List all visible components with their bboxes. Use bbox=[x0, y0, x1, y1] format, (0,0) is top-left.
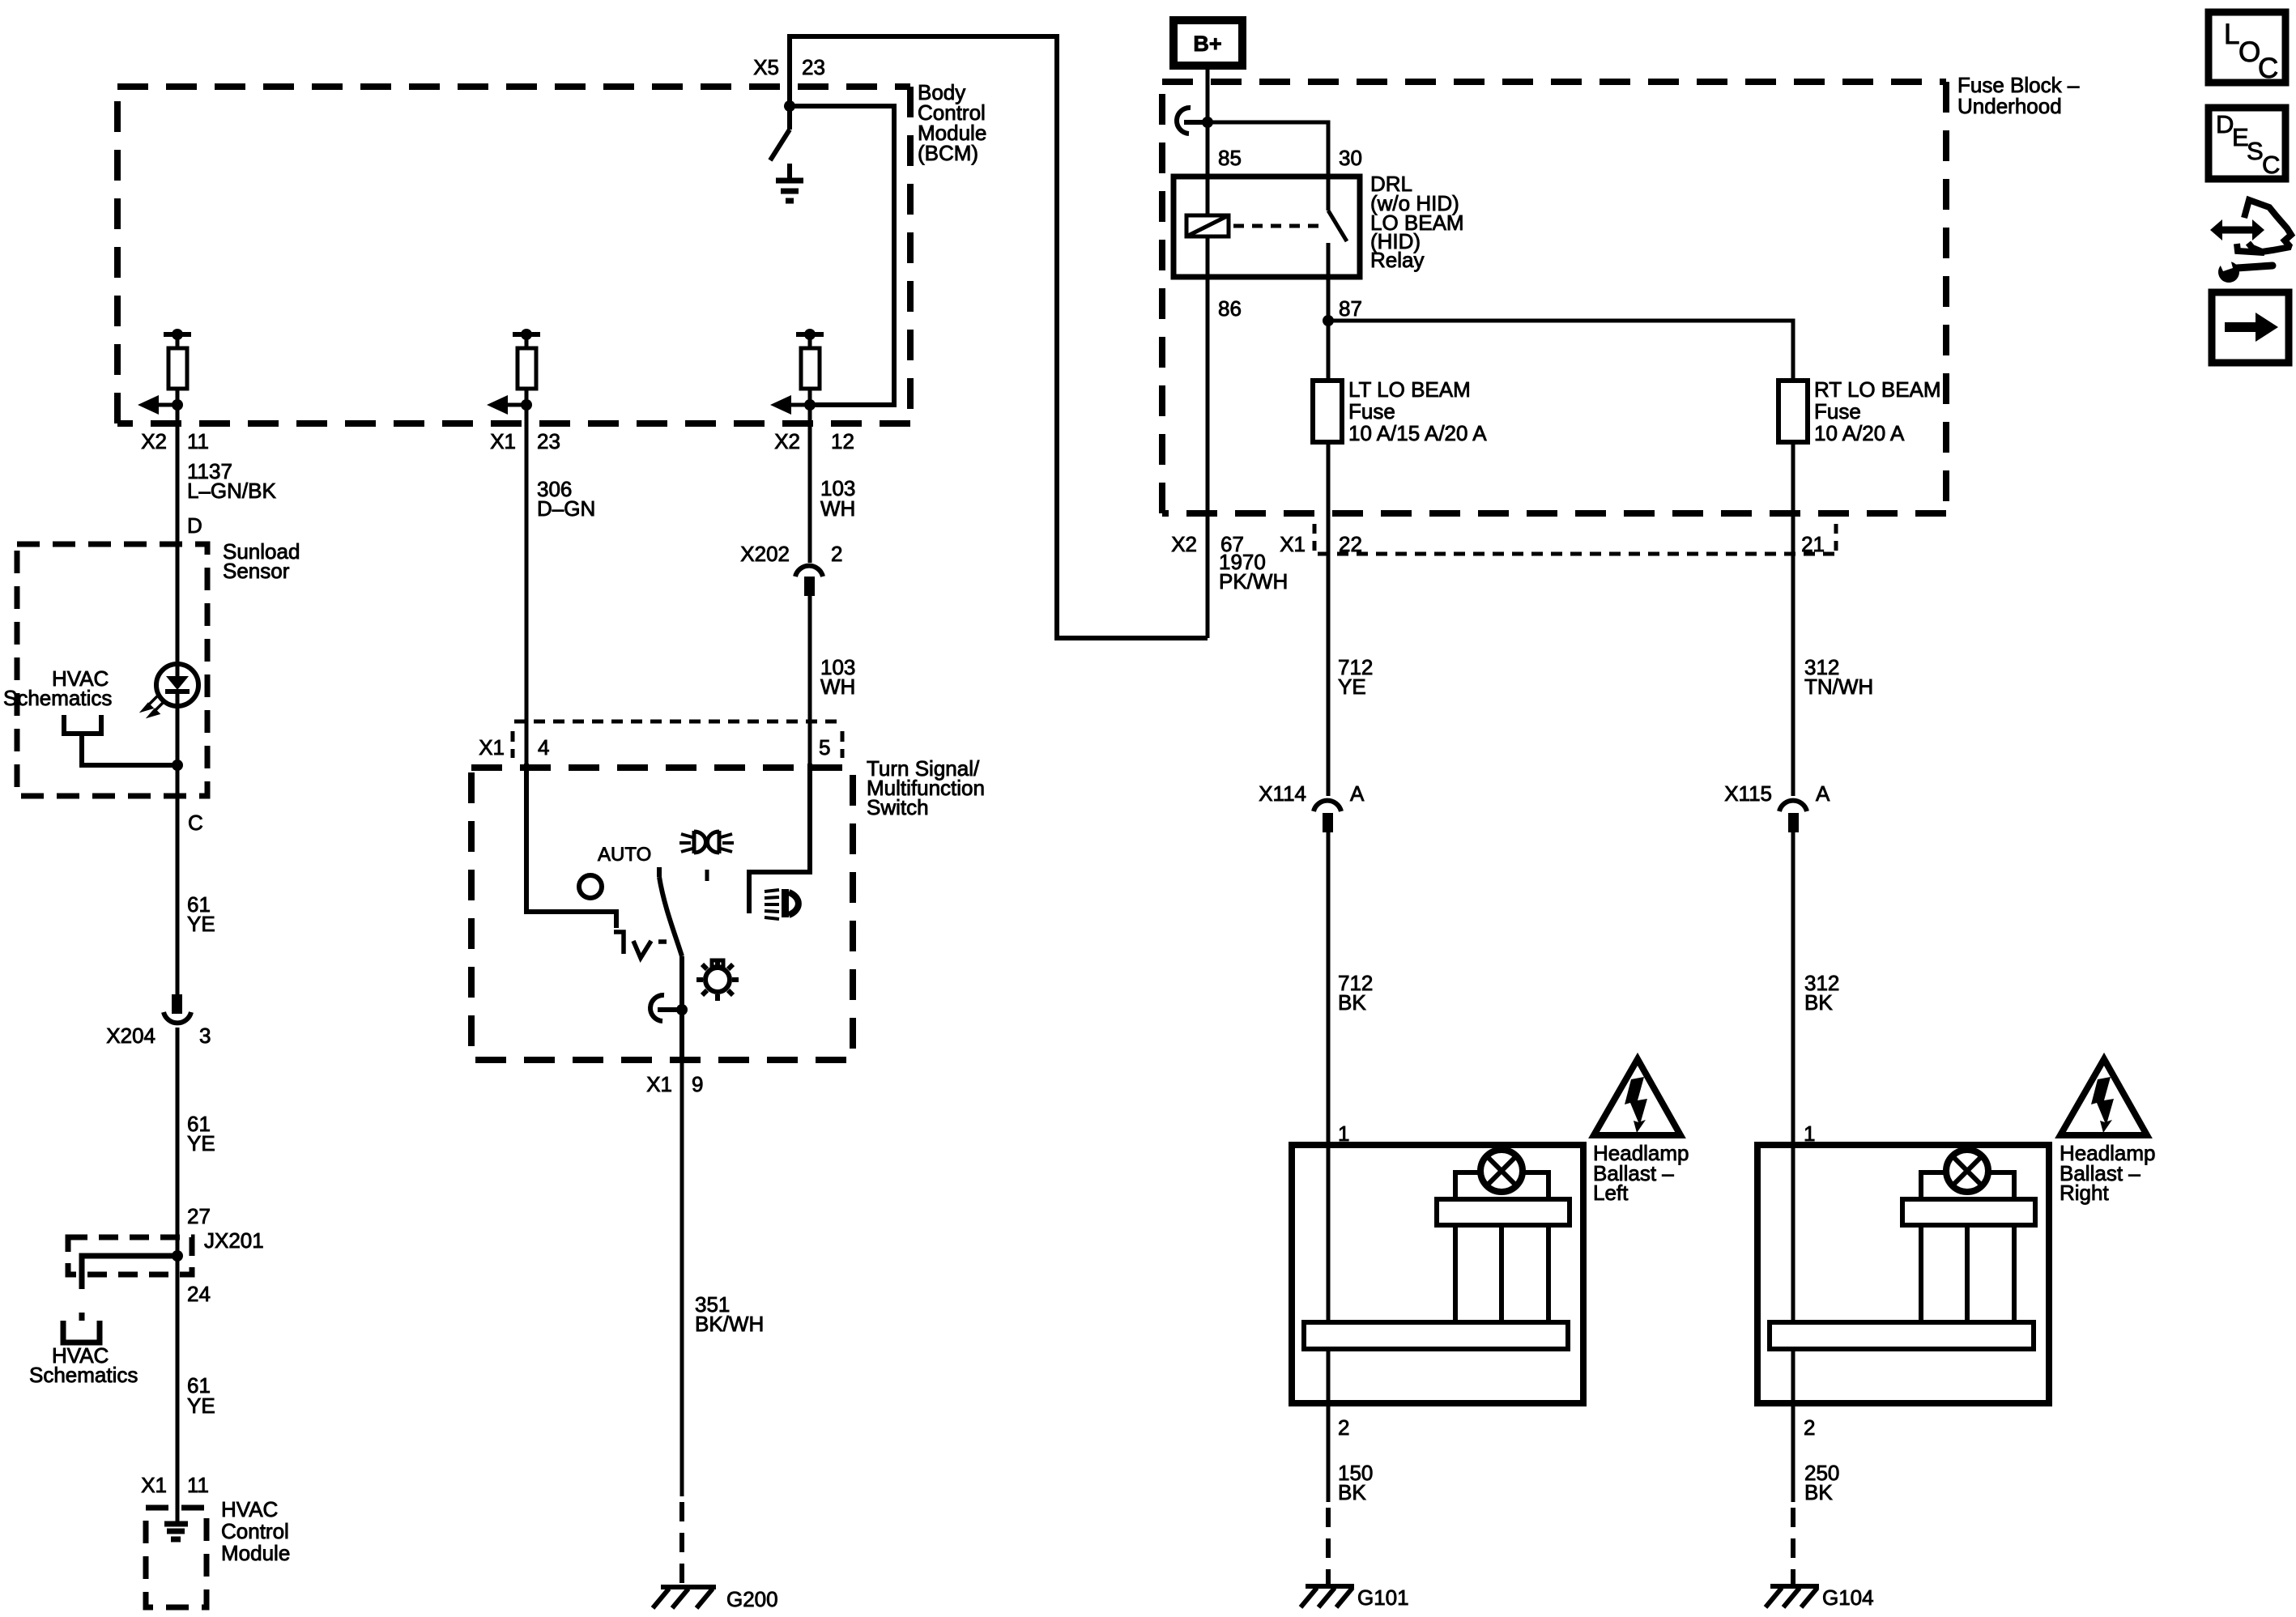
svg-text:3: 3 bbox=[199, 1023, 211, 1048]
wire: headlamp contact bbox=[749, 764, 810, 913]
photodiode D1 sunload bbox=[176, 544, 180, 679]
driver Q1 output (X2-11) bbox=[159, 334, 191, 423]
icon: park lamps bbox=[694, 831, 719, 853]
svg-text:YE: YE bbox=[187, 912, 215, 936]
svg-text:Right: Right bbox=[2060, 1181, 2109, 1205]
connector labels X2-11 bbox=[141, 429, 209, 453]
driver Q2 output (X1-23) bbox=[508, 334, 540, 423]
svg-text:A: A bbox=[1350, 781, 1365, 806]
svg-text:X2: X2 bbox=[141, 429, 167, 453]
connector labels X2-12 bbox=[774, 429, 854, 453]
svg-text:23: 23 bbox=[537, 429, 560, 453]
wire 306 D-GN bbox=[525, 423, 529, 764]
svg-text:Underhood: Underhood bbox=[1957, 94, 2062, 118]
svg-text:11: 11 bbox=[187, 1473, 209, 1497]
relay pin labels 86 87 bbox=[1218, 296, 1362, 321]
detent symbol bbox=[614, 932, 667, 958]
wire 1137 L-GN/BK bbox=[176, 423, 180, 544]
lamp EL1 with igniter pedestal bbox=[1304, 1172, 1570, 1349]
svg-text:X2: X2 bbox=[1171, 532, 1197, 556]
switch S-bcm internal to ground bbox=[770, 106, 790, 160]
relay coil bbox=[1186, 215, 1229, 236]
HVAC schematics pointer text (JX201) bbox=[29, 1343, 138, 1387]
svg-text:BK: BK bbox=[1338, 1480, 1366, 1504]
svg-text:X1: X1 bbox=[646, 1072, 672, 1096]
wire 250 BK bbox=[1791, 1403, 1795, 1502]
svg-text:YE: YE bbox=[187, 1394, 215, 1418]
svg-text:4: 4 bbox=[538, 735, 549, 760]
hook: spur connection at B+ bus bbox=[1177, 108, 1191, 134]
junction block JX201 bbox=[68, 1237, 192, 1274]
svg-text:S: S bbox=[2247, 137, 2264, 165]
svg-text:A: A bbox=[1816, 781, 1830, 806]
dash below park icon bbox=[705, 870, 709, 881]
icon DESC bbox=[2209, 108, 2285, 179]
ground: BCM internal bbox=[776, 164, 803, 201]
svg-text:YE: YE bbox=[187, 1131, 215, 1155]
wire 1970 PK/WH bbox=[1219, 550, 1288, 594]
wire: relay 86 down to X2-67 bbox=[1206, 277, 1210, 638]
svg-text:BK: BK bbox=[1338, 990, 1366, 1015]
svg-text:BK/WH: BK/WH bbox=[695, 1312, 764, 1336]
svg-text:2: 2 bbox=[831, 542, 842, 566]
wire 312 BK bbox=[1791, 832, 1795, 1145]
wire: RT fuse out bbox=[1791, 442, 1795, 796]
wire: sunload out bbox=[176, 765, 180, 796]
svg-text:WH: WH bbox=[820, 496, 855, 521]
node: sunload junction bbox=[172, 760, 183, 771]
svg-text:30: 30 bbox=[1339, 146, 1362, 170]
wire: BCM internal bus to driver 3 bbox=[790, 106, 894, 405]
relay pin labels 85 30 bbox=[1218, 146, 1362, 170]
wire: AUTO contact feed bbox=[526, 764, 616, 928]
lamp EL2 with igniter pedestal bbox=[1770, 1172, 2035, 1349]
svg-text:L: L bbox=[2224, 19, 2239, 50]
svg-text:10 A/20 A: 10 A/20 A bbox=[1814, 421, 1905, 445]
connector labels X1-11 bbox=[141, 1473, 209, 1497]
svg-text:23: 23 bbox=[802, 55, 825, 79]
Headlamp Ballast Left label bbox=[1593, 1141, 1689, 1205]
wire 103 WH lower bbox=[808, 596, 812, 764]
svg-text:X115: X115 bbox=[1724, 781, 1772, 806]
svg-text:Schematics: Schematics bbox=[29, 1363, 138, 1387]
Headlamp Ballast Right label bbox=[2060, 1141, 2156, 1205]
svg-text:G101: G101 bbox=[1357, 1585, 1409, 1610]
fuse F2 RT LO BEAM bbox=[1778, 381, 1808, 442]
relay linkage dashed bbox=[1233, 224, 1320, 228]
wire 150 BK bbox=[1327, 1403, 1331, 1502]
svg-text:X204: X204 bbox=[106, 1023, 155, 1048]
svg-text:X2: X2 bbox=[774, 429, 800, 453]
svg-text:C: C bbox=[2258, 53, 2278, 84]
wire: relay 87 to fuses bbox=[1327, 277, 1331, 381]
fuse F1 LT LO BEAM bbox=[1313, 381, 1342, 442]
svg-text:Relay: Relay bbox=[1370, 248, 1424, 272]
wire: cross feed to RT fuse bbox=[1328, 321, 1793, 381]
svg-text:86: 86 bbox=[1218, 296, 1242, 321]
wire 712 YE bbox=[1338, 655, 1373, 699]
wire: LT fuse out bbox=[1327, 442, 1331, 796]
svg-text:10 A/15 A/20 A: 10 A/15 A/20 A bbox=[1348, 421, 1487, 445]
svg-text:X114: X114 bbox=[1259, 781, 1306, 806]
icon: rotary light switch knob bbox=[696, 959, 739, 1001]
wire 61 YE (lower) bbox=[176, 1274, 180, 1521]
svg-text:G104: G104 bbox=[1822, 1585, 1874, 1610]
svg-text:21: 21 bbox=[1801, 532, 1825, 556]
svg-text:2: 2 bbox=[1804, 1415, 1815, 1440]
svg-text:BK: BK bbox=[1804, 1480, 1833, 1504]
svg-text:AUTO: AUTO bbox=[598, 844, 651, 866]
warning triangle right bbox=[2060, 1059, 2147, 1135]
connector X204 in-line bbox=[172, 994, 182, 1014]
BCM module box U1 bbox=[117, 87, 910, 423]
svg-text:22: 22 bbox=[1339, 532, 1362, 556]
svg-text:C: C bbox=[2262, 151, 2280, 179]
svg-text:TN/WH: TN/WH bbox=[1804, 674, 1873, 699]
svg-text:11: 11 bbox=[187, 429, 209, 453]
svg-text:Left: Left bbox=[1593, 1181, 1629, 1205]
wire branch to HVAC schematics bbox=[63, 1256, 177, 1343]
ground G104 bbox=[1766, 1586, 1819, 1607]
svg-text:G200: G200 bbox=[726, 1587, 778, 1611]
icon LOC bbox=[2209, 12, 2285, 83]
node: 87 junction bbox=[1323, 315, 1334, 326]
icon arrow box bbox=[2212, 292, 2289, 363]
wire X5-23 feed loop to relay bbox=[790, 36, 1208, 638]
node: X5-23 junction bbox=[784, 100, 795, 112]
connector X202 in-line bbox=[808, 423, 812, 563]
battery B+ terminal bbox=[1174, 20, 1242, 66]
wire 712 BK bbox=[1327, 832, 1331, 1145]
svg-text:9: 9 bbox=[692, 1072, 703, 1096]
svg-text:Switch: Switch bbox=[867, 795, 929, 819]
wire 61 YE (upper) bbox=[176, 796, 180, 994]
wire 103 WH upper label bbox=[820, 476, 855, 521]
relay label bbox=[1370, 172, 1464, 272]
Fuse Block - Underhood box bbox=[1162, 82, 1946, 513]
svg-text:2: 2 bbox=[1338, 1415, 1349, 1440]
wire inside right ballast bbox=[1791, 1145, 1795, 1322]
svg-text:X1: X1 bbox=[1280, 532, 1306, 556]
connector pin labels X5 23 bbox=[753, 55, 825, 79]
svg-text:X1: X1 bbox=[141, 1473, 167, 1497]
driver Q3 output (X2-12) bbox=[791, 334, 824, 423]
svg-text:Fuse: Fuse bbox=[1814, 399, 1861, 423]
wire to relay pin 30 bbox=[1208, 122, 1328, 177]
icon hand with arrows and wrench bbox=[2237, 200, 2291, 253]
node: B+ junction bbox=[1202, 117, 1213, 128]
svg-text:87: 87 bbox=[1339, 296, 1362, 321]
svg-text:Schematics: Schematics bbox=[3, 686, 112, 710]
svg-text:WH: WH bbox=[820, 674, 855, 699]
icon: headlamp low beam bbox=[765, 889, 799, 919]
BCM label bbox=[918, 80, 986, 165]
svg-text:D: D bbox=[187, 513, 202, 538]
wire through JX201 bbox=[176, 1237, 180, 1274]
svg-text:Fuse: Fuse bbox=[1348, 399, 1395, 423]
light arrows into photodiode bbox=[143, 696, 164, 716]
Headlamp Ballast Right box A2 bbox=[1757, 1145, 2049, 1403]
wire 351 BK/WH bbox=[680, 1060, 684, 1496]
Headlamp Ballast Left box A1 bbox=[1292, 1145, 1583, 1403]
connector X114 in-line bbox=[1314, 801, 1341, 811]
wire 312 TN/WH bbox=[1804, 655, 1873, 699]
OFF position circle bbox=[579, 875, 602, 898]
hook: spur connection at switch output bbox=[650, 995, 664, 1021]
svg-text:24: 24 bbox=[187, 1282, 211, 1306]
switch blade S1 bbox=[659, 867, 682, 1060]
wire inside left ballast bbox=[1327, 1145, 1331, 1322]
svg-text:BK: BK bbox=[1804, 990, 1833, 1015]
bracket: continues in HVAC schematics bbox=[64, 715, 177, 765]
svg-text:YE: YE bbox=[1338, 674, 1366, 699]
svg-text:X1: X1 bbox=[479, 735, 505, 760]
connector labels X1-9 bbox=[646, 1072, 703, 1096]
svg-text:27: 27 bbox=[187, 1204, 211, 1228]
node JX201 junction bbox=[172, 1250, 183, 1262]
svg-text:C: C bbox=[188, 811, 203, 835]
svg-text:Module: Module bbox=[221, 1541, 290, 1565]
wire 61 YE (middle) bbox=[176, 1028, 180, 1237]
wire dashed to ground G200 bbox=[679, 1502, 684, 1584]
svg-text:85: 85 bbox=[1218, 146, 1242, 170]
connector strip X1 (fuse block) bbox=[1314, 524, 1836, 554]
svg-text:JX201: JX201 bbox=[204, 1228, 264, 1253]
svg-text:HVAC: HVAC bbox=[221, 1497, 278, 1521]
relay K1 DRL/LO BEAM box bbox=[1174, 177, 1360, 277]
svg-text:(BCM): (BCM) bbox=[918, 141, 978, 165]
connector labels X1-23 bbox=[490, 429, 560, 453]
relay switch blade bbox=[1328, 177, 1347, 277]
HVAC Control Module box bbox=[146, 1508, 207, 1607]
svg-text:12: 12 bbox=[831, 429, 854, 453]
svg-text:X1: X1 bbox=[490, 429, 516, 453]
svg-text:RT LO BEAM: RT LO BEAM bbox=[1814, 377, 1941, 402]
warning triangle left bbox=[1594, 1059, 1680, 1135]
svg-text:L–GN/BK: L–GN/BK bbox=[187, 479, 276, 503]
ground G200 bbox=[653, 1587, 716, 1608]
svg-text:X5: X5 bbox=[753, 55, 779, 79]
svg-text:Control: Control bbox=[221, 1519, 289, 1543]
node: switch output junction bbox=[676, 1004, 688, 1015]
svg-text:X202: X202 bbox=[740, 542, 790, 566]
Turn Signal / Multifunction Switch box S1 bbox=[471, 768, 853, 1060]
svg-text:PK/WH: PK/WH bbox=[1219, 569, 1288, 594]
connector strip X1 (switch) bbox=[513, 721, 843, 758]
svg-text:5: 5 bbox=[819, 735, 830, 760]
svg-text:Sensor: Sensor bbox=[223, 559, 290, 583]
HVAC schematics pointer text (sunload) bbox=[3, 666, 112, 710]
Sunload Sensor box bbox=[17, 544, 207, 796]
wire: B+ feed to relay coil bbox=[1206, 66, 1210, 215]
svg-text:LT LO BEAM: LT LO BEAM bbox=[1348, 377, 1471, 402]
svg-text:B+: B+ bbox=[1193, 32, 1221, 56]
connector X115 in-line bbox=[1779, 801, 1807, 811]
connector labels X2-67 X1-22 21 bbox=[1171, 532, 1825, 556]
ground: HVAC control module internal bbox=[164, 1524, 188, 1539]
ground G101 bbox=[1301, 1586, 1354, 1607]
svg-text:D–GN: D–GN bbox=[537, 496, 595, 521]
